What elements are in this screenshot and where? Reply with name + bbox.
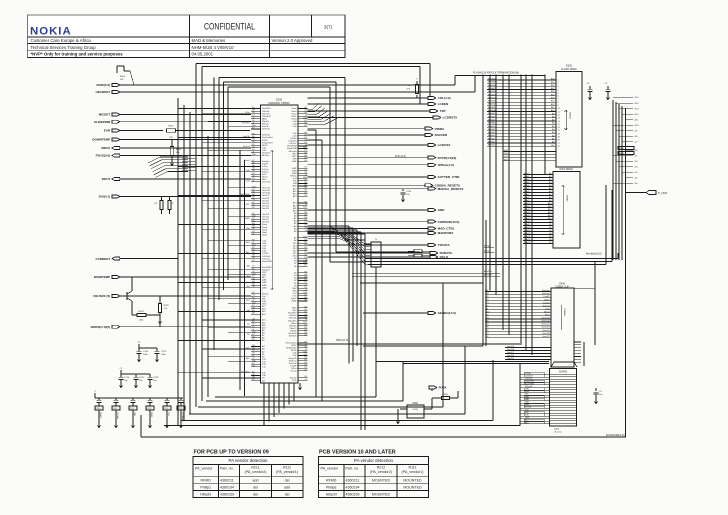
- capacitor C401: [593, 388, 602, 404]
- svg-text:SimRstX: SimRstX: [289, 335, 297, 338]
- svg-text:Mem3: Mem3: [524, 182, 529, 184]
- svg-text:SDout: SDout: [544, 311, 550, 314]
- svg-text:MemA15: MemA15: [488, 93, 496, 96]
- svg-text:BUZZER: BUZZER: [435, 133, 448, 137]
- svg-text:MemA6: MemA6: [488, 122, 495, 125]
- svg-text:Mem15: Mem15: [524, 218, 530, 220]
- svg-text:WrX: WrX: [504, 153, 509, 155]
- svg-text:MemA16: MemA16: [488, 90, 496, 93]
- svg-text:Row3: Row3: [245, 160, 250, 162]
- svg-text:NHM-5/UB 4 V09/V10: NHM-5/UB 4 V09/V10: [192, 45, 235, 50]
- svg-text:MAD_CTRL: MAD_CTRL: [438, 227, 455, 231]
- svg-text:TXDATA: TXDATA: [438, 243, 451, 247]
- svg-text:PCB VERSION 10 AND LATER: PCB VERSION 10 AND LATER: [319, 450, 396, 456]
- svg-text:C218: C218: [153, 377, 159, 379]
- svg-text:B10: B10: [252, 154, 255, 156]
- output tag TXDATA: [308, 243, 451, 247]
- IC N380 regulator: [396, 398, 432, 424]
- svg-text:D301 SRAM: D301 SRAM: [559, 168, 572, 171]
- svg-text:16Mbit: 16Mbit: [569, 112, 572, 119]
- svg-text:GenIO5: GenIO5: [507, 358, 515, 360]
- svg-text:MemA9: MemA9: [488, 112, 495, 115]
- svg-text:Mem6: Mem6: [524, 191, 529, 193]
- svg-text:A1: A1: [252, 222, 254, 225]
- svg-text:Mem4: Mem4: [524, 185, 529, 187]
- svg-text:MicData: MicData: [542, 289, 550, 292]
- IC D200 MAD2WD1: [261, 98, 299, 383]
- svg-text:RdX: RdX: [504, 150, 509, 152]
- svg-text:R212: R212: [377, 465, 386, 469]
- svg-text:R225: R225: [164, 305, 170, 307]
- svg-text:MAD & Memories: MAD & Memories: [192, 38, 226, 43]
- svg-text:4360211: 4360211: [220, 478, 234, 482]
- connector tag EAR: [104, 129, 163, 133]
- svg-text:GenOut1: GenOut1: [541, 323, 550, 326]
- connector tag ROW(5:0): [97, 83, 455, 87]
- svg-text:SClk: SClk: [292, 380, 296, 382]
- svg-text:D8: D8: [247, 310, 249, 312]
- svg-text:C9: C9: [304, 370, 306, 372]
- connector tag MBUS: [101, 146, 251, 150]
- svg-text:MemA20: MemA20: [488, 78, 496, 81]
- svg-text:add: add: [253, 478, 259, 482]
- svg-text:KbLights: KbLights: [525, 385, 532, 388]
- svg-text:RxData: RxData: [290, 376, 298, 379]
- svg-text:RxData: RxData: [262, 170, 270, 173]
- svg-text:GenIO8: GenIO8: [542, 333, 550, 335]
- resistors R305 R306: [618, 147, 634, 156]
- tag PURX near N380: [429, 386, 447, 391]
- svg-text:Mem1: Mem1: [524, 176, 529, 178]
- connector tag DOWNTEMP: [92, 138, 251, 142]
- svg-text:(PA_vendor1): (PA_vendor1): [276, 470, 298, 474]
- svg-text:del: del: [253, 492, 258, 496]
- svg-text:VibraPWM: VibraPWM: [525, 380, 534, 383]
- svg-text:A17: A17: [525, 419, 528, 422]
- pull-up resistor R231: [406, 79, 418, 99]
- bus into UI connector: [376, 362, 549, 364]
- svg-text:4360159: 4360159: [346, 492, 360, 496]
- svg-text:GenIO6: GenIO6: [243, 136, 250, 138]
- svg-text:F6: F6: [252, 207, 254, 209]
- svg-text:FLASH(2:0) RFI/CLK TERMINATION: FLASH(2:0) RFI/CLK TERMINATIONS(8): [473, 72, 519, 75]
- svg-text:A1: A1: [252, 371, 254, 374]
- output tag DCLK: [308, 255, 449, 259]
- svg-text:MOUNTED: MOUNTED: [403, 478, 422, 482]
- capacitor bank C220-C225: [94, 391, 185, 428]
- ground below MAD: [298, 383, 301, 390]
- svg-text:K2: K2: [252, 379, 254, 381]
- svg-text:MemA11: MemA11: [488, 106, 495, 109]
- svg-text:Col4: Col4: [246, 170, 250, 172]
- svg-text:Col0: Col0: [246, 180, 250, 182]
- svg-text:VibraPWM: VibraPWM: [262, 261, 272, 263]
- table FOR PCB UP TO VERSION 09: [193, 450, 303, 498]
- svg-text:GenIO10: GenIO10: [242, 122, 250, 124]
- svg-text:V2V8: V2V8: [412, 409, 418, 411]
- svg-text:D12: D12: [246, 300, 249, 302]
- svg-text:GenIO10: GenIO10: [541, 327, 550, 329]
- svg-text:MemA14: MemA14: [488, 96, 496, 99]
- svg-text:GenOut2: GenOut2: [541, 320, 550, 323]
- MAD right pins: [286, 107, 308, 382]
- svg-text:(PA_vendor2): (PA_vendor2): [370, 470, 392, 474]
- svg-text:LCDRSTX: LCDRSTX: [443, 116, 459, 120]
- crystal B200: [117, 66, 134, 85]
- svg-text:Version 2.0 Approved: Version 2.0 Approved: [272, 38, 313, 43]
- connector tag CARDDET: [96, 257, 178, 261]
- svg-text:MICDET: MICDET: [99, 113, 111, 117]
- UI connector bottom note: [554, 429, 562, 434]
- svg-text:KbLights: KbLights: [289, 150, 297, 153]
- capacitor C234: [400, 189, 412, 202]
- svg-text:A1: A1: [304, 358, 306, 361]
- svg-text:MemA7: MemA7: [488, 119, 495, 122]
- output tag LCDEN: [308, 102, 450, 106]
- svg-text:JDBus(1:0): JDBus(1:0): [438, 163, 454, 167]
- svg-text:(PA_vendor2): (PA_vendor2): [245, 470, 267, 474]
- svg-text:MemA3: MemA3: [488, 131, 495, 134]
- svg-text:MemA8: MemA8: [488, 115, 495, 118]
- output tag COBBAD(13:0): [308, 220, 460, 224]
- svg-text:D4: D4: [247, 324, 249, 326]
- svg-text:E7: E7: [304, 265, 306, 267]
- svg-text:DAI2: DAI2: [525, 398, 529, 401]
- capacitors C216 C217 C218: [118, 368, 159, 388]
- svg-text:MemRdX: MemRdX: [484, 275, 493, 277]
- svg-text:R111: R111: [283, 465, 291, 469]
- connector X200 with fan wires: [338, 232, 381, 398]
- svg-text:MBUS: MBUS: [101, 146, 110, 150]
- svg-text:Mem22: Mem22: [524, 239, 530, 241]
- svg-text:COBBAD(13:0): COBBAD(13:0): [438, 220, 460, 224]
- svg-text:Mem20: Mem20: [524, 233, 530, 235]
- svg-text:LCDCSX: LCDCSX: [438, 143, 452, 147]
- svg-text:DOWNTEMP: DOWNTEMP: [92, 138, 110, 142]
- output tag COL(4:0): [308, 96, 451, 100]
- resistor R221 on EAR line: [167, 126, 251, 140]
- svg-text:FBUS(1:0): FBUS(1:0): [336, 338, 348, 342]
- cobba lower pin group: [505, 346, 551, 360]
- connector tag DOUT: [102, 177, 251, 181]
- svg-text:A1: A1: [304, 328, 306, 331]
- svg-text:Vref: Vref: [525, 408, 529, 411]
- svg-text:Mem9: Mem9: [524, 200, 529, 202]
- svg-text:*NVP* Only for training and: *NVP* Only for training and service purp…: [31, 51, 124, 56]
- svg-text:GenIO6: GenIO6: [507, 355, 515, 357]
- svg-text:A1: A1: [252, 193, 254, 196]
- output tag BUZZER: [308, 133, 448, 137]
- output tag MADPURX: [308, 231, 455, 235]
- svg-text:TxData: TxData: [543, 301, 550, 304]
- svg-text:MAD2WD1 C05839: MAD2WD1 C05839: [269, 102, 291, 105]
- svg-text:4360194: 4360194: [346, 485, 360, 489]
- svg-text:Mem10: Mem10: [524, 203, 530, 205]
- svg-text:DOUT: DOUT: [102, 177, 111, 181]
- svg-text:add: add: [284, 485, 290, 489]
- svg-text:J3: J3: [252, 181, 254, 183]
- vertical wires near MAD left edge: [240, 150, 245, 396]
- diagonal jog bundle MAD top right: [308, 103, 338, 124]
- svg-text:Mem11: Mem11: [524, 206, 530, 208]
- svg-text:B200: B200: [120, 76, 126, 78]
- svg-text:GenIO7: GenIO7: [507, 352, 515, 354]
- connector tag SLIDEPWM: [94, 120, 251, 124]
- svg-text:A1: A1: [304, 213, 306, 216]
- svg-text:CONFIDENTIAL: CONFIDENTIAL: [204, 22, 255, 32]
- svg-text:Philips: Philips: [200, 485, 211, 489]
- svg-text:PURX: PURX: [439, 386, 447, 390]
- svg-text:MADGA_RESETX: MADGA_RESETX: [438, 187, 465, 191]
- output tag JDBus(1:0): [308, 163, 454, 167]
- svg-text:SimCardDet: SimCardDet: [262, 136, 273, 139]
- svg-text:FBUS(3:0): FBUS(3:0): [96, 154, 111, 158]
- svg-text:MemA19: MemA19: [488, 81, 496, 84]
- svg-text:CARDDET: CARDDET: [96, 257, 111, 261]
- svg-text:A1: A1: [252, 164, 254, 167]
- svg-text:DVTR(4:0)(6): DVTR(4:0)(6): [438, 156, 457, 160]
- flash control pin wires: [503, 150, 556, 161]
- svg-text:A1: A1: [252, 309, 254, 312]
- svg-text:GenOut2: GenOut2: [262, 187, 271, 190]
- output tag GND: [308, 208, 446, 212]
- svg-text:RFMD: RFMD: [326, 478, 337, 482]
- svg-text:MemA1: MemA1: [488, 137, 495, 140]
- svg-text:(PA_vendor1): (PA_vendor1): [402, 470, 424, 474]
- connector tag MICDET: [99, 113, 251, 117]
- svg-text:MemA0: MemA0: [488, 141, 495, 144]
- svg-text:MOUNTED: MOUNTED: [372, 478, 391, 482]
- svg-text:PA_vendor: PA_vendor: [321, 467, 339, 471]
- resistor R223 vertical: [170, 140, 182, 166]
- capacitors C214 C215: [136, 342, 167, 362]
- svg-text:P_URX: P_URX: [658, 191, 667, 195]
- vertical bus wires left of MAD: [178, 64, 224, 426]
- table PCB VERSION 10 AND LATER: [319, 450, 429, 498]
- svg-text:C215: C215: [161, 351, 167, 353]
- output tag GENIO(14:0): [363, 311, 456, 315]
- svg-text:ROW(5:0): ROW(5:0): [97, 83, 111, 87]
- svg-text:DAI4: DAI4: [525, 403, 529, 406]
- svg-text:SimCardDet: SimCardDet: [286, 341, 297, 344]
- connector tag FBUSRX (5): [93, 294, 251, 298]
- svg-text:GND: GND: [438, 208, 446, 212]
- svg-text:DAI(4:1): DAI(4:1): [99, 195, 111, 199]
- svg-text:C234: C234: [406, 191, 412, 193]
- wire bends top left tags: [455, 76, 545, 93]
- svg-text:R224: R224: [138, 311, 144, 313]
- svg-text:SimDaIO: SimDaIO: [262, 129, 271, 131]
- svg-text:MOUNTED: MOUNTED: [403, 485, 422, 489]
- svg-text:TxData: TxData: [290, 370, 297, 373]
- svg-text:MemWrX: MemWrX: [484, 270, 493, 273]
- svg-text:G5: G5: [252, 286, 255, 288]
- svg-text:DspXF: DspXF: [543, 296, 550, 298]
- svg-text:A1: A1: [304, 273, 306, 276]
- svg-text:MemBus(15:0): MemBus(15:0): [586, 253, 602, 256]
- UI connector left pin labels: [520, 368, 550, 426]
- diagonal jog bundle left of MAD: [148, 157, 188, 178]
- svg-text:MemA17: MemA17: [488, 87, 496, 90]
- svg-text:R223: R223: [176, 149, 182, 151]
- output tag TXP: [308, 109, 446, 113]
- output tag MADGA_RESETX: [308, 187, 465, 191]
- svg-text:EAR: EAR: [104, 129, 111, 133]
- svg-text:del: del: [285, 492, 290, 496]
- svg-text:PULL(4:0): PULL(4:0): [395, 155, 406, 158]
- bus loop wires right of COBBA: [297, 75, 595, 367]
- svg-text:A0: A0: [247, 285, 249, 288]
- svg-text:MemD: MemD: [484, 251, 490, 253]
- svg-text:PA vendor detection: PA vendor detection: [229, 458, 269, 463]
- svg-text:SIMCD(1:0)(5): SIMCD(1:0)(5): [91, 325, 111, 329]
- svg-text:N380: N380: [412, 403, 418, 405]
- svg-text:Mem0: Mem0: [524, 173, 529, 175]
- svg-text:A1: A1: [252, 338, 254, 341]
- svg-text:A1: A1: [304, 299, 306, 302]
- svg-text:SLIDEPWM: SLIDEPWM: [94, 120, 111, 124]
- svg-text:GenIO8: GenIO8: [507, 349, 515, 351]
- svg-text:A1: A1: [304, 184, 306, 187]
- svg-text:SDin: SDin: [545, 315, 549, 317]
- svg-text:SRAM: SRAM: [566, 195, 569, 201]
- memory bus verticals: [490, 75, 545, 356]
- horizontal bus wires bottom center: [141, 283, 626, 437]
- flash address pin wires: [487, 78, 561, 149]
- connector tag SIMCD(1:0)(5): [91, 325, 251, 329]
- svg-text:BSI/BTEMP: BSI/BTEMP: [94, 275, 110, 279]
- svg-text:GenOut3: GenOut3: [541, 317, 550, 320]
- svg-text:SimRstX: SimRstX: [262, 134, 270, 137]
- svg-text:A4: A4: [247, 275, 249, 278]
- svg-text:PA vendor detection: PA vendor detection: [354, 458, 394, 463]
- svg-text:E7: E7: [252, 128, 254, 130]
- svg-text:LCDRstX: LCDRstX: [525, 375, 534, 378]
- svg-text:Mem12: Mem12: [524, 209, 530, 211]
- svg-text:RxData: RxData: [543, 304, 551, 307]
- svg-text:MemA5: MemA5: [488, 125, 495, 128]
- svg-text:UI conn: UI conn: [554, 431, 562, 433]
- svg-text:MemA13: MemA13: [488, 100, 496, 103]
- svg-text:G5: G5: [304, 160, 307, 162]
- cobba right pins: [574, 342, 581, 365]
- svg-text:4360159: 4360159: [220, 492, 234, 496]
- connector tag BSI/BTEMP: [94, 275, 251, 279]
- fan stub net labels: [613, 97, 639, 185]
- svg-text:MADPURX: MADPURX: [438, 231, 455, 235]
- svg-text:DAI1: DAI1: [525, 395, 529, 398]
- svg-text:FOR PCB UP TO VERSION 09: FOR PCB UP TO VERSION 09: [194, 450, 269, 456]
- svg-text:MicData: MicData: [289, 359, 297, 362]
- IC D300 flash: [556, 65, 582, 168]
- svg-text:J3: J3: [305, 230, 307, 232]
- output tag RXDATA: [308, 251, 453, 255]
- svg-text:del: del: [253, 485, 258, 489]
- svg-text:COBBA: COBBA: [563, 308, 566, 316]
- svg-text:3(7): 3(7): [324, 25, 333, 30]
- stub wires below MAD: [264, 383, 294, 426]
- svg-text:C217: C217: [139, 377, 145, 379]
- svg-text:FBUSRX (5): FBUSRX (5): [93, 294, 110, 298]
- svg-text:A1: A1: [252, 135, 254, 138]
- svg-text:Mem2: Mem2: [524, 179, 529, 181]
- resistors R240 R241 on serial lines: [408, 250, 430, 257]
- svg-text:C214: C214: [143, 351, 149, 353]
- svg-text:D0: D0: [247, 334, 249, 336]
- svg-text:VibraPWM: VibraPWM: [241, 193, 250, 196]
- svg-text:R211: R211: [251, 465, 259, 469]
- svg-text:HEADDET: HEADDET: [96, 90, 111, 94]
- output tag LCDRSTX: [308, 116, 459, 120]
- svg-text:MemA10: MemA10: [488, 109, 496, 112]
- svg-text:G5: G5: [304, 335, 307, 337]
- capacitor C301: [587, 83, 593, 100]
- svg-text:MemA18: MemA18: [488, 84, 496, 87]
- pull resistor fan verticals: [613, 100, 626, 437]
- svg-text:VIBRA: VIBRA: [435, 127, 445, 131]
- svg-text:Row0: Row0: [262, 234, 268, 236]
- svg-text:GenOut3: GenOut3: [262, 181, 271, 184]
- svg-text:GenIO9: GenIO9: [542, 330, 550, 332]
- svg-text:MemA-1: MemA-1: [488, 144, 495, 147]
- svg-text:COL(4:0): COL(4:0): [438, 96, 451, 100]
- svg-text:LCDEN: LCDEN: [438, 102, 449, 106]
- svg-text:D8: D8: [252, 313, 254, 315]
- output tag MAD_CTRL: [308, 227, 455, 231]
- transistor V201 circuit: [124, 277, 170, 327]
- svg-text:SDin: SDin: [245, 112, 249, 114]
- svg-text:100n: 100n: [161, 354, 167, 356]
- svg-text:Part. no.: Part. no.: [220, 467, 234, 471]
- svg-text:K2: K2: [252, 260, 254, 262]
- svg-text:Mem8: Mem8: [524, 197, 529, 199]
- svg-text:4360211: 4360211: [346, 478, 360, 482]
- top keypad bus wires: [196, 64, 430, 105]
- IC D301 SRAM: [553, 168, 580, 248]
- svg-text:MemA12: MemA12: [488, 103, 496, 106]
- cobba pin wires: [485, 289, 551, 338]
- IC D400 COBBA: [551, 282, 574, 367]
- svg-text:ExtSysRstX: ExtSysRstX: [262, 141, 273, 144]
- svg-text:Technical Services Training Gr: Technical Services Training Group: [31, 45, 97, 50]
- svg-text:[MJOELNER(2:0)]: [MJOELNER(2:0)]: [606, 435, 625, 437]
- svg-text:PA_vendor: PA_vendor: [195, 467, 213, 471]
- svg-text:GenIO2: GenIO2: [243, 146, 250, 148]
- wires right of MAD: [308, 130, 366, 430]
- svg-text:A1: A1: [304, 154, 306, 157]
- svg-text:Part. no.: Part. no.: [346, 467, 360, 471]
- svg-text:DAI3: DAI3: [525, 401, 529, 404]
- svg-text:TXP: TXP: [440, 109, 446, 113]
- svg-text:A1: A1: [304, 124, 306, 127]
- svg-text:H4: H4: [252, 366, 254, 368]
- svg-text:C9: C9: [304, 195, 306, 197]
- svg-text:Mem14: Mem14: [524, 215, 530, 217]
- output tag DVTR(4:0)(6): [308, 156, 457, 160]
- svg-text:A12: A12: [246, 251, 249, 254]
- svg-text:Hitachi: Hitachi: [326, 492, 337, 496]
- capacitor C302: [605, 83, 611, 100]
- top bus over MAD: [219, 77, 420, 280]
- resistor R383: [432, 391, 458, 400]
- svg-text:DAI3: DAI3: [245, 217, 249, 220]
- svg-text:R111: R111: [408, 465, 416, 469]
- svg-text:X400: X400: [554, 429, 560, 431]
- svg-text:TxPwr: TxPwr: [544, 299, 550, 301]
- svg-text:04.05.2001: 04.05.2001: [192, 51, 214, 56]
- svg-text:EarData: EarData: [542, 292, 550, 295]
- svg-text:4360194: 4360194: [220, 485, 234, 489]
